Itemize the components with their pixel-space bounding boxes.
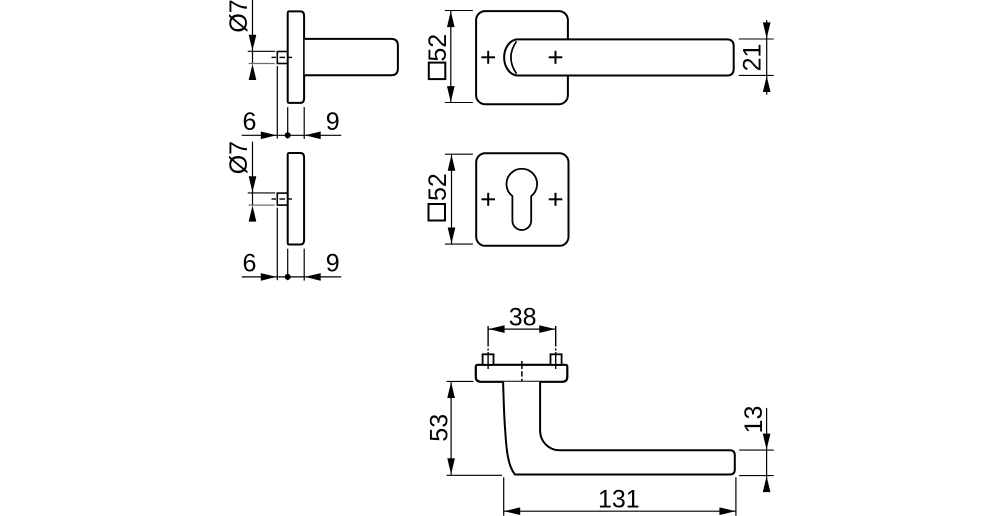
arrow down 21 fig3 xyxy=(763,22,771,39)
svg-text:9: 9 xyxy=(326,108,340,136)
arrow right 131 fig5 xyxy=(719,507,736,515)
screw cross left fig4 xyxy=(481,193,495,206)
screw left fig5 xyxy=(483,354,494,365)
extension line 131 left fig5 xyxy=(503,477,505,516)
extension line rose front fig2 xyxy=(303,249,305,281)
svg-text:9: 9 xyxy=(326,250,340,278)
square symbol fig3 xyxy=(429,63,446,80)
square symbol fig4 xyxy=(429,204,446,221)
screw cross right fig3 xyxy=(549,51,563,64)
spindle square fig2 xyxy=(277,193,287,205)
extension lines Ø7 fig1 xyxy=(248,50,276,52)
arrow right 38 fig5 xyxy=(539,325,556,333)
dot junction fig1 xyxy=(285,132,291,138)
svg-text:21: 21 xyxy=(739,44,767,72)
svg-text:Ø7: Ø7 xyxy=(225,141,253,174)
dot junction fig2 xyxy=(285,274,291,280)
arrow up 52 fig3 xyxy=(447,11,455,28)
svg-text:52: 52 xyxy=(424,173,452,201)
arrow down Ø7 fig1 xyxy=(249,35,257,52)
extension line rose back fig1 xyxy=(287,107,289,139)
lever grip front view fig3 xyxy=(504,39,734,75)
arrow right 6 fig2 xyxy=(261,273,278,281)
mounting plate top view fig5 xyxy=(476,365,568,382)
arrow down Ø7 fig2 xyxy=(249,176,257,193)
square escutcheon fig4 xyxy=(476,153,568,246)
svg-text:52: 52 xyxy=(424,34,452,62)
arrow left 131 fig5 xyxy=(504,507,521,515)
extension lines 21 fig3 xyxy=(739,38,774,40)
extension line from spindle fig1 xyxy=(276,66,278,139)
arrow up Ø7 fig1 xyxy=(249,64,257,81)
svg-text:6: 6 xyxy=(243,108,257,136)
arrow down 13 fig5 xyxy=(763,434,771,451)
arrow down 52 fig4 xyxy=(448,228,456,245)
dimension line 21 fig3 xyxy=(766,20,768,95)
extension line rose front fig1 xyxy=(303,107,305,139)
grip end cap arc fig3 xyxy=(511,41,517,73)
lever handle top view outline fig5 xyxy=(503,382,735,475)
dimension line 131 fig5 xyxy=(504,510,736,512)
square rosette fig3 xyxy=(476,11,568,104)
dimension line 13 fig5 xyxy=(766,408,768,492)
arrow up 21 fig3 xyxy=(763,76,771,93)
handle neck side view fig1 xyxy=(305,39,398,75)
dimension line 6/9 fig2 xyxy=(242,276,342,278)
svg-text:13: 13 xyxy=(740,406,768,434)
extension line 131 right fig5 xyxy=(735,477,737,516)
screw cross left fig3 xyxy=(481,51,495,64)
svg-text:Ø7: Ø7 xyxy=(225,0,253,33)
extension lines 13 fig5 xyxy=(739,449,774,451)
extension lines 52 fig4 xyxy=(445,153,473,155)
dimension line 53 fig5 xyxy=(450,382,452,475)
cylinder keyhole fig4 xyxy=(506,169,537,230)
arrow up 53 fig5 xyxy=(447,382,455,399)
arrow down 52 fig3 xyxy=(447,86,455,103)
arrow left 9 fig2 xyxy=(304,273,321,281)
screw cross right fig4 xyxy=(549,193,563,206)
rosette side view fig1 xyxy=(288,11,304,103)
dimension line square52 fig3 xyxy=(450,11,452,103)
arrow up Ø7 fig2 xyxy=(249,205,257,222)
plate centerline fig5 xyxy=(521,361,523,387)
arrow down 53 fig5 xyxy=(447,458,455,475)
extension line rose back fig2 xyxy=(287,249,289,281)
svg-text:38: 38 xyxy=(509,303,537,331)
dimension Ø7 line fig1 xyxy=(252,0,254,51)
rosette side view fig2 xyxy=(288,153,304,245)
dimension line 6/9 fig1 xyxy=(242,134,342,136)
extension lines Ø7 fig2 xyxy=(248,192,276,194)
dimension Ø7 line fig2 xyxy=(252,142,254,193)
svg-text:6: 6 xyxy=(243,250,257,278)
arrow left 9 fig1 xyxy=(304,132,321,140)
dimension line 38 fig5 xyxy=(488,328,556,330)
screw centerline right fig5 xyxy=(555,326,557,369)
screw centerline left fig5 xyxy=(487,326,489,369)
screw right fig5 xyxy=(551,354,562,365)
svg-text:53: 53 xyxy=(425,414,453,442)
arrow up 52 fig4 xyxy=(448,154,456,171)
spindle square fig1 xyxy=(277,52,287,64)
arrow up 13 fig5 xyxy=(763,476,771,493)
extension line from spindle fig2 xyxy=(276,208,278,281)
extension lines 53 fig5 xyxy=(447,380,474,382)
dimension line square52 fig4 xyxy=(451,154,453,244)
spindle centerline fig2 xyxy=(272,198,293,200)
arrow right 6 fig1 xyxy=(261,132,278,140)
svg-text:131: 131 xyxy=(598,486,640,514)
spindle centerline fig1 xyxy=(272,56,293,58)
extension lines 52 fig3 xyxy=(445,10,473,12)
arrow left 38 fig5 xyxy=(488,325,505,333)
